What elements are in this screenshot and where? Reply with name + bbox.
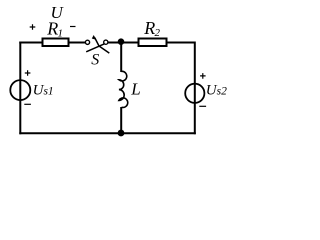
wire through Us2 bbox=[194, 83, 196, 103]
switch S right terminal bbox=[104, 40, 108, 44]
label minus of U bbox=[70, 26, 76, 28]
svg-text:2: 2 bbox=[155, 27, 161, 39]
inductor L coil bbox=[119, 71, 128, 107]
wire top (left corner to switch left terminal) bbox=[20, 42, 86, 43]
wire bottom bbox=[19, 132, 196, 134]
switch S blade with arrow bbox=[95, 38, 110, 54]
wire right vertical bbox=[194, 42, 196, 135]
voltage source Us2 circle bbox=[185, 84, 204, 103]
label + of Us1 bbox=[25, 70, 31, 76]
voltage source Us1 circle bbox=[10, 80, 30, 100]
label + of U bbox=[30, 24, 36, 30]
svg-text:S: S bbox=[91, 51, 99, 68]
wire top (switch right terminal to top-right corner) bbox=[106, 42, 195, 44]
switch S crossing line bbox=[86, 44, 104, 52]
label + of Us2 bbox=[200, 73, 206, 79]
resistor R2 bbox=[139, 39, 167, 47]
label minus of Us2 bbox=[199, 105, 206, 107]
svg-text:1: 1 bbox=[58, 27, 64, 39]
svg-text:L: L bbox=[130, 80, 140, 99]
wire left vertical bbox=[19, 42, 21, 135]
wire middle branch upper bbox=[120, 42, 122, 73]
wire middle branch lower bbox=[120, 107, 122, 134]
junction node bottom bbox=[118, 130, 125, 137]
label minus of Us1 bbox=[24, 103, 31, 105]
switch S left terminal bbox=[85, 40, 89, 44]
svg-text:R: R bbox=[143, 18, 155, 38]
junction node top bbox=[118, 38, 125, 45]
svg-text:R: R bbox=[46, 18, 58, 38]
resistor R1 bbox=[43, 39, 69, 47]
svg-text:Us2: Us2 bbox=[206, 82, 227, 98]
svg-text:Us1: Us1 bbox=[33, 82, 54, 98]
wire through Us1 bbox=[19, 80, 21, 100]
